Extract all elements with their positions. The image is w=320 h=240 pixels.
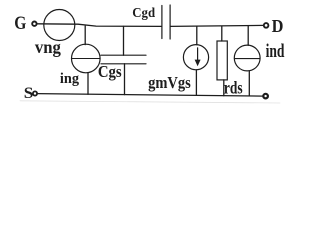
terminal S (33, 91, 37, 95)
current source ing (72, 44, 101, 73)
arrow gmVgs (197, 48, 199, 63)
svg-text:S: S (24, 85, 34, 102)
wire rds branch bottom (223, 80, 225, 96)
wire ind branch top (247, 26, 249, 45)
current source ind (234, 45, 260, 71)
wire drain top (170, 25, 264, 26)
wire ing branch top (84, 26, 86, 45)
svg-text:ind: ind (266, 42, 285, 62)
voltage source vng (44, 10, 75, 41)
wire gmVgs branch top (196, 26, 198, 44)
svg-text:Cgs: Cgs (98, 62, 122, 81)
svg-text:gmVgs: gmVgs (148, 73, 191, 92)
terminal drain-source right (263, 94, 268, 99)
terminal G (32, 22, 36, 26)
capacitor Cgs (101, 54, 146, 56)
wire Cgs branch top (123, 26, 125, 55)
wire ing branch bottom (87, 73, 89, 95)
current source gmVgs U1 (183, 45, 208, 70)
svg-text:ing: ing (60, 71, 80, 87)
wire source bottom (37, 94, 263, 97)
wire gmVgs branch bottom (195, 70, 197, 95)
wire gate top (37, 24, 162, 27)
capacitor Cgd (161, 6, 163, 39)
svg-text:Cgd: Cgd (132, 6, 155, 21)
wire ind branch bottom (248, 71, 250, 96)
svg-text:G: G (14, 14, 26, 34)
resistor rds (217, 41, 227, 80)
svg-text:D: D (272, 16, 284, 36)
wire Cgs branch bottom (124, 64, 126, 95)
svg-text:rds: rds (224, 78, 243, 98)
scan artifact faint line (20, 101, 280, 103)
wire ing diameter (72, 58, 100, 60)
terminal D (264, 23, 269, 28)
wire rds branch top (221, 26, 223, 41)
wire ind diameter (234, 58, 260, 60)
svg-text:vng: vng (35, 37, 61, 57)
